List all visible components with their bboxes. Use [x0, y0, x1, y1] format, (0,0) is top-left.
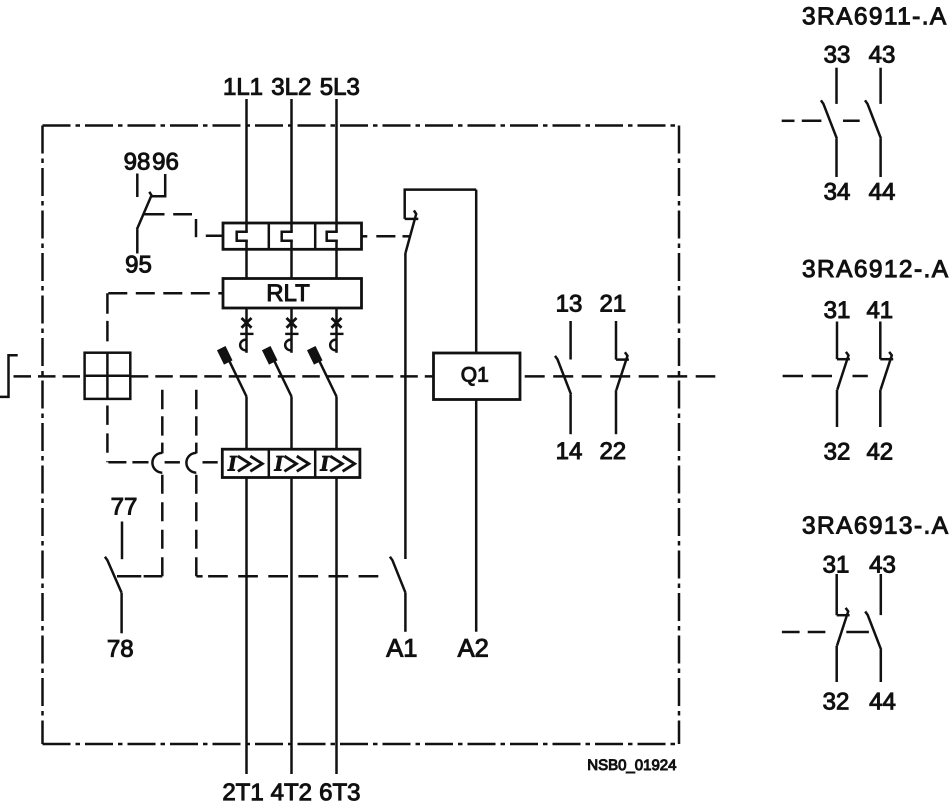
svg-text:2T1: 2T1 — [222, 779, 263, 806]
enclosure border (dash-dot outline of 3RA69 starter) — [43, 124, 680, 127]
svg-text:34: 34 — [824, 179, 851, 206]
wire pole 3 load lead — [335, 478, 338, 775]
circuit-breaker function symbol (X) pole 2 — [287, 318, 297, 328]
mechanism square vertical line — [106, 353, 109, 399]
fixed contact foot — [405, 218, 419, 221]
svg-text:44: 44 — [869, 179, 896, 206]
mechanism linkage dashes (square to Q1) — [131, 375, 434, 378]
switch box divider 1 — [268, 223, 271, 249]
trip link 1 (dashed, to 77-78 contact) — [161, 390, 164, 454]
wire pole 1 load lead — [245, 478, 248, 775]
circuit-breaker function symbol (X) pole 3 — [332, 318, 342, 328]
main switch (disconnect) box — [223, 223, 362, 249]
NC contact 31-32 blade — [837, 608, 848, 646]
I>> divider 2 — [314, 449, 317, 477]
disconnect main contact pole 3 — [327, 232, 338, 241]
svg-text:RLT: RLT — [266, 280, 310, 307]
mechanism square horizontal line — [85, 375, 131, 378]
accessory 3RA6911 linkage (dashed) — [782, 120, 795, 123]
wire coil branch top — [405, 190, 477, 219]
mechanism linkage dashes (left of square) — [14, 375, 85, 378]
NC contact 31-32 stop hook — [837, 614, 850, 617]
trip linkage RLT to mechanism (dashed) — [108, 292, 223, 295]
wire pole 2 to overcurrent release — [290, 397, 293, 450]
contactor coil Q1 box — [434, 353, 521, 400]
breaker moving contact blade pole 1 — [229, 360, 247, 396]
NC contact 21-22 terminal leads — [615, 321, 618, 360]
svg-text:43: 43 — [869, 41, 896, 68]
disconnect main contact pole 1 — [237, 232, 248, 241]
accessory 3RA6913 linkage (dashed) — [782, 631, 800, 634]
svg-text:95: 95 — [125, 251, 152, 278]
switch box right actuator stub — [362, 235, 368, 238]
mechanical link 95-contact to main switch (dashed) — [144, 213, 164, 216]
svg-text:A1: A1 — [386, 635, 417, 663]
svg-text:1L1: 1L1 — [223, 74, 263, 101]
svg-text:96: 96 — [152, 148, 179, 175]
svg-text:21: 21 — [599, 290, 626, 317]
svg-text:5L3: 5L3 — [320, 74, 360, 101]
wire coil top to Q1 — [475, 190, 478, 353]
svg-text:I: I — [227, 450, 238, 475]
wire to terminal A1 — [404, 593, 407, 632]
NC contact 21-22 blade — [616, 352, 627, 390]
disconnector bar pole 3 — [330, 333, 343, 335]
trip linkage mechanism to releases (dashed) — [106, 406, 109, 463]
circuit-breaker function symbol (X) pole 1 — [242, 318, 252, 328]
wire 3L2 supply lead — [290, 99, 293, 232]
disconnect main contact pole 2 — [282, 232, 293, 241]
NC contact 31-32 stop hook — [837, 358, 850, 361]
contact blade 77-78 — [105, 557, 122, 593]
wire pole 3 below trip unit — [335, 308, 338, 353]
wire pole 1 below trip unit — [245, 308, 248, 353]
svg-text:3RA6911-.A: 3RA6911-.A — [802, 3, 948, 30]
svg-text:13: 13 — [556, 290, 583, 317]
NO contact 13-14 terminal leads — [569, 321, 572, 360]
svg-text:6T3: 6T3 — [319, 779, 360, 806]
svg-text:32: 32 — [823, 688, 850, 715]
wire 5L3 supply lead — [335, 99, 338, 232]
NC contact 41-42 blade — [881, 352, 892, 390]
trip flag pole 3 — [307, 346, 323, 365]
terminal 96 lead — [151, 174, 165, 196]
svg-text:33: 33 — [824, 41, 851, 68]
A1 start contact blade — [390, 557, 406, 593]
I>> divider 1 — [268, 449, 271, 477]
operating mechanism square — [85, 353, 131, 399]
terminal 78 lead — [120, 593, 123, 634]
NC contact 31-32 blade — [837, 352, 848, 390]
trip link 2 (dashed, to A1 contact) — [195, 390, 198, 454]
wire pole 1 disconnect to trip unit — [245, 241, 248, 279]
latch half-circle 2 — [186, 453, 196, 473]
NC contact 41-42 terminal leads — [879, 322, 882, 360]
svg-text:32: 32 — [824, 438, 851, 465]
wire pole 1 to overcurrent release — [245, 397, 248, 450]
svg-text:I: I — [273, 450, 284, 475]
svg-text:22: 22 — [599, 438, 626, 465]
NO contact 43-44 terminal leads — [879, 68, 882, 104]
changeover contact blade 95-96-98 — [137, 192, 152, 230]
switch contact blade (coil branch) — [406, 210, 417, 253]
wire coil branch to A1 contact — [404, 253, 407, 559]
breaker moving contact blade pole 3 — [319, 360, 337, 396]
disconnector bar pole 1 — [240, 333, 253, 335]
svg-text:I: I — [319, 450, 330, 475]
svg-text:Q1: Q1 — [461, 364, 489, 387]
accessory 3RA6912 linkage (dashed) — [783, 375, 803, 378]
latch half-circle 1 — [152, 453, 162, 473]
trip flag pole 2 — [262, 346, 278, 365]
NO contact 33-34 blade — [821, 100, 837, 138]
NC contact 41-42 stop hook — [880, 358, 893, 361]
mechanism linkage dashes (Q1 to right border) — [525, 375, 716, 378]
svg-text:3L2: 3L2 — [271, 74, 311, 101]
NO contact 43-44 terminal leads — [880, 574, 883, 615]
breaker moving contact blade pole 2 — [274, 360, 292, 396]
svg-text:4T2: 4T2 — [271, 779, 312, 806]
NO contact 33-34 terminal leads — [835, 68, 838, 104]
thermal trip unit RLT box — [223, 279, 362, 309]
overcurrent release box I>> — [222, 449, 360, 477]
svg-text:78: 78 — [107, 636, 134, 663]
wire pole 2 load lead — [290, 478, 293, 775]
terminal 98 lead — [136, 174, 139, 198]
NO contact 43-44 blade — [865, 100, 881, 138]
NC contact 31-32 terminal leads — [836, 322, 839, 360]
terminal 95 lead — [136, 229, 139, 253]
latch hook pole 1 — [240, 340, 246, 351]
latch hook pole 2 — [285, 340, 291, 351]
svg-text:3RA6913-.A: 3RA6913-.A — [802, 513, 950, 540]
left operating handle stub — [0, 355, 18, 397]
svg-text:42: 42 — [866, 438, 893, 465]
mechanical link main switch to coil contact (dashed) — [376, 235, 395, 238]
svg-text:77: 77 — [111, 493, 138, 520]
terminal 77 lead — [121, 522, 124, 560]
NO contact 43-44 blade — [865, 612, 881, 650]
svg-text:31: 31 — [824, 297, 851, 324]
NC contact 31-32 terminal leads — [835, 574, 838, 615]
NC contact 21-22 stop hook — [616, 358, 629, 361]
NO contact 13-14 blade — [555, 356, 571, 394]
svg-text:41: 41 — [866, 297, 893, 324]
wire pole 2 disconnect to trip unit — [290, 241, 293, 279]
wire Q1 to terminal A2 — [475, 400, 478, 632]
svg-text:43: 43 — [869, 551, 896, 578]
svg-text:A2: A2 — [458, 635, 489, 663]
wire pole 3 to overcurrent release — [335, 397, 338, 450]
svg-text:44: 44 — [869, 688, 896, 715]
svg-text:3RA6912-.A: 3RA6912-.A — [802, 256, 950, 283]
svg-text:NSB0_01924: NSB0_01924 — [587, 757, 676, 774]
latch hook pole 3 — [330, 340, 336, 351]
trip flag pole 1 — [217, 346, 233, 365]
wire pole 3 disconnect to trip unit — [335, 241, 338, 279]
wire 1L1 supply lead — [245, 99, 248, 232]
wire pole 2 below trip unit — [290, 308, 293, 353]
disconnector bar pole 2 — [285, 333, 298, 335]
svg-text:14: 14 — [556, 438, 583, 465]
svg-text:98: 98 — [124, 148, 151, 175]
switch box divider 2 — [314, 223, 317, 249]
